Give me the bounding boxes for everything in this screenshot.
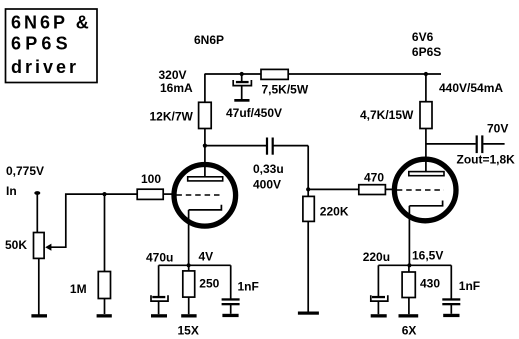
wire 47uf lower lead — [241, 86, 243, 99]
ground pot — [31, 314, 47, 317]
wire coupling branch left of 0,33u cap — [205, 145, 266, 147]
node left cathode — [187, 263, 191, 267]
svg-text:7,5K/5W: 7,5K/5W — [262, 83, 309, 97]
svg-text:In: In — [6, 184, 17, 198]
wire 220u lower lead — [377, 301, 379, 314]
svg-text:16,5V: 16,5V — [412, 249, 443, 263]
node right grid branch — [306, 187, 310, 191]
svg-text:470u: 470u — [146, 251, 173, 265]
title box "6N6P & 6P6S driver" — [6, 9, 98, 83]
resistor 1M — [98, 272, 110, 299]
svg-text:1M: 1M — [70, 282, 87, 296]
svg-text:400V: 400V — [253, 178, 281, 192]
wire right anode vertical (through 4,7K) — [425, 74, 427, 172]
wire right tube grid — [308, 188, 392, 190]
svg-text:1nF: 1nF — [238, 280, 259, 294]
wire top supply rail — [205, 73, 442, 75]
node 47uf tap on rail — [240, 72, 244, 76]
wire 470u lower lead — [158, 301, 160, 314]
capacitor 220u (electrolytic plate) — [372, 296, 385, 298]
wire right cathode rail — [378, 264, 451, 266]
svg-text:470: 470 — [364, 171, 384, 185]
node 440V rail junction — [424, 72, 428, 76]
resistor 4,7K/15W — [420, 102, 432, 129]
svg-text:220u: 220u — [363, 250, 390, 264]
capacitor 47uf/450V (cup) — [233, 80, 251, 86]
resistor 100 — [137, 189, 163, 199]
wire coupling vertical down through 220K to ground — [307, 146, 309, 312]
wire 1nF right lower lead — [450, 305, 452, 314]
svg-text:47uf/450V: 47uf/450V — [226, 106, 282, 120]
svg-text:220K: 220K — [320, 204, 349, 218]
wire 1nF left upper lead — [230, 265, 232, 298]
wire pot bottom to ground — [38, 258, 40, 314]
resistor 12K/7W — [199, 102, 212, 128]
svg-text:320V: 320V — [159, 68, 187, 82]
ground 430 — [399, 314, 419, 317]
svg-text:6P6S: 6P6S — [412, 45, 441, 59]
resistor 470 — [359, 185, 386, 195]
svg-text:12K/7W: 12K/7W — [150, 110, 194, 124]
wire output branch left of cap — [426, 143, 476, 145]
tube V2 anode plate — [409, 172, 444, 176]
svg-text:6N6P: 6N6P — [194, 33, 224, 47]
wire left anode vertical (through 12K) — [204, 74, 206, 177]
tube V1 grid (dashed) — [176, 194, 222, 196]
resistor 7,5K/5W — [261, 69, 288, 79]
svg-text:6P6S: 6P6S — [11, 34, 72, 54]
wire output branch right of cap — [483, 143, 504, 145]
svg-text:16mA: 16mA — [160, 81, 193, 95]
svg-text:6N6P &: 6N6P & — [11, 12, 92, 32]
capacitor 470u (electrolytic plate) — [152, 296, 165, 298]
node input terminal — [34, 191, 40, 195]
wire input to pot top — [36, 193, 38, 233]
resistor 250 — [183, 271, 195, 297]
capacitor 1nF right plates — [442, 298, 460, 305]
wire 470u upper lead — [158, 265, 160, 296]
ground 1M — [97, 314, 112, 317]
tube V1 cathode — [189, 205, 222, 210]
ground 470u — [151, 314, 167, 317]
svg-text:6V6: 6V6 — [412, 30, 434, 44]
ground 220K — [298, 312, 319, 315]
node left anode branch — [203, 144, 207, 148]
ground 1nF left — [222, 314, 238, 317]
svg-text:50K: 50K — [5, 238, 27, 252]
capacitor 1nF left plates — [222, 298, 240, 305]
capacitor 47uf/450V (electrolytic plate) — [236, 81, 249, 83]
svg-text:6X: 6X — [402, 324, 417, 338]
svg-text:0,775V: 0,775V — [6, 164, 44, 178]
tube V2 grid (dashed) — [397, 189, 444, 191]
svg-text:70V: 70V — [487, 122, 508, 136]
svg-text:driver: driver — [11, 57, 79, 77]
capacitor output plates — [476, 135, 484, 153]
svg-text:4V: 4V — [199, 250, 214, 264]
ground 1nF right — [443, 314, 459, 317]
resistor 430 — [402, 272, 415, 298]
ground 250 — [181, 314, 196, 317]
resistor 220K — [303, 196, 314, 221]
tube V1 6N6P envelope — [174, 165, 236, 227]
capacitor 220u (cup) — [371, 295, 388, 301]
tube V2 6V6 envelope — [394, 159, 456, 221]
wire pot wiper to grid net — [51, 194, 138, 247]
wire left cathode rail — [159, 264, 231, 266]
ground 47uf — [234, 99, 249, 102]
wire left cathode lead — [188, 210, 190, 265]
node 1M tap — [102, 192, 106, 196]
potentiometer 50K wiper arrow — [45, 244, 51, 251]
wire 220u upper lead — [377, 265, 379, 296]
wire 1M resistor vertical — [104, 194, 106, 314]
svg-text:4,7K/15W: 4,7K/15W — [360, 108, 414, 122]
tube V1 anode plate — [188, 177, 223, 181]
svg-text:1nF: 1nF — [459, 279, 480, 293]
wire 1nF right upper lead — [450, 265, 452, 298]
svg-text:15X: 15X — [178, 324, 199, 338]
ground 220u — [371, 314, 387, 317]
potentiometer 50K body — [34, 233, 45, 259]
wire coupling branch right of 0,33u cap — [273, 145, 308, 147]
capacitor 0,33u plates — [266, 138, 274, 155]
wire right cathode lead — [408, 206, 410, 265]
svg-text:Zout=1,8K: Zout=1,8K — [457, 153, 516, 167]
svg-text:440V/54mA: 440V/54mA — [439, 81, 503, 95]
node right cathode — [407, 263, 411, 267]
tube V2 cathode — [409, 201, 442, 206]
wire 47uf upper lead — [241, 74, 243, 81]
wire 250 resistor vertical — [188, 265, 190, 314]
wire 100 resistor to left grid — [163, 193, 177, 195]
wire 1nF left lower lead — [230, 305, 232, 314]
capacitor 470u (cup) — [151, 295, 168, 301]
svg-text:250: 250 — [199, 277, 219, 291]
svg-text:430: 430 — [420, 277, 440, 291]
svg-text:0,33u: 0,33u — [253, 162, 284, 176]
wire 430 resistor vertical — [408, 265, 410, 314]
svg-text:100: 100 — [141, 172, 161, 186]
